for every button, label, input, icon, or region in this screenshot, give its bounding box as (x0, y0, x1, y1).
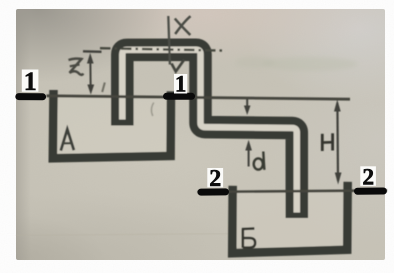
section mark 2 (left): boxed label (207, 166, 223, 192)
svg-text:1: 1 (24, 67, 37, 96)
section mark 1 (left): thick bar (19, 93, 43, 100)
label A (tank A) (61, 129, 74, 150)
tank Б interior water tint (237, 192, 344, 247)
free-surface line 2-2 (198, 190, 388, 192)
stray pencil tick above tank A water line (102, 83, 105, 93)
paper crease bottom-left (16, 234, 235, 236)
dimension H (level 1-1 to level 2-2) (334, 100, 342, 185)
label d (254, 152, 265, 170)
section mark 2 (right): boxed label (360, 165, 376, 191)
siphon pipe (dark outer walls) (122, 50, 296, 218)
svg-text:1: 1 (175, 72, 187, 97)
pipe axis dash-dot line at summit (100, 48, 225, 50)
vertical centreline at summit (168, 16, 170, 65)
faint pencil arc left of pipe elbow (151, 103, 153, 117)
svg-text:2: 2 (362, 165, 374, 191)
section mark 2 (right): thick bar (358, 188, 384, 195)
dimension d (pipe diameter), upper arrow (244, 99, 251, 115)
siphon pipe bore (light interior) (122, 50, 296, 213)
label Б (tank Б) (242, 229, 255, 248)
ghost text stain top-right (235, 56, 358, 71)
tank A (open reservoir, left) (53, 90, 171, 158)
label x (velocity head mark) (175, 16, 191, 35)
section mark 1 (centre): thick bar (167, 93, 192, 100)
dimension z (summit above level 1-1) (83, 51, 102, 94)
free-surface line 1-1 (47, 96, 351, 99)
dimension d, lower arrow (245, 140, 252, 167)
section mark 2 (left): thick bar (201, 188, 226, 195)
label z (69, 59, 84, 75)
svg-text:2: 2 (209, 166, 221, 192)
hand-drawn check/arrow under centreline (172, 60, 185, 72)
tank Б (open reservoir, right) (232, 182, 348, 253)
section mark 1 (left): boxed label (22, 67, 39, 96)
label H (322, 133, 332, 151)
section mark 1 (centre): boxed label (174, 72, 187, 97)
tank A interior water tint (57, 97, 167, 154)
